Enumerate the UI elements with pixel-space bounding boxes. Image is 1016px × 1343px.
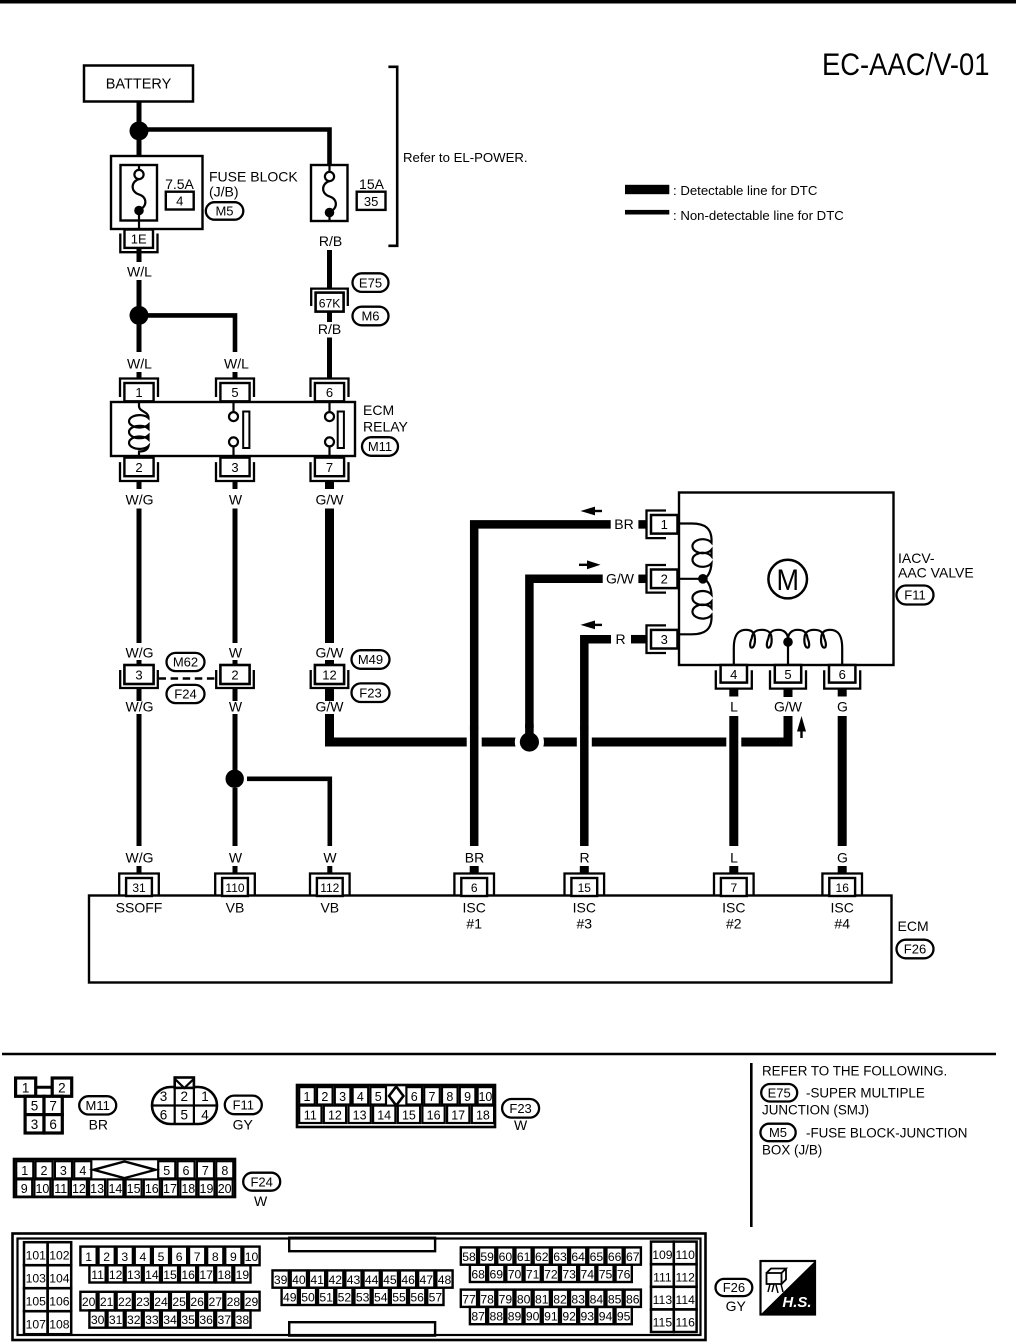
svg-text:7.5A: 7.5A	[165, 176, 194, 192]
svg-text:15: 15	[578, 881, 592, 895]
svg-text:13: 13	[90, 1182, 104, 1196]
svg-text:83: 83	[571, 1292, 585, 1306]
legend: non-detectable line sample	[625, 210, 669, 215]
svg-text:14: 14	[108, 1182, 122, 1196]
bracket refer EL-POWER	[388, 67, 397, 246]
wire W/L stub pin1	[137, 372, 142, 379]
svg-text:50: 50	[301, 1290, 315, 1304]
connector face F26 (ECM)	[13, 1234, 706, 1341]
svg-text:15: 15	[127, 1182, 141, 1196]
svg-text:3: 3	[231, 460, 238, 475]
connector pin 110 (ECM)	[215, 874, 255, 897]
connector pin 7 (ECM)	[714, 874, 754, 897]
svg-text:M5: M5	[215, 204, 233, 219]
connector pin 6 (ECM)	[454, 874, 494, 897]
connector 67K (SMJ)	[311, 289, 348, 312]
svg-text:19: 19	[200, 1182, 214, 1196]
svg-text:6: 6	[839, 667, 846, 682]
connector pin 2 (M62/F24)	[216, 665, 254, 688]
svg-text:-FUSE BLOCK-JUNCTION: -FUSE BLOCK-JUNCTION	[806, 1125, 967, 1140]
svg-text:W/L: W/L	[224, 356, 249, 372]
svg-text:W/L: W/L	[127, 264, 152, 280]
label ISC #1	[463, 899, 486, 931]
connector ref M49 oval	[352, 650, 390, 669]
wire W branch to pin112	[247, 779, 330, 846]
connector ref F26 oval (bottom)	[716, 1279, 753, 1296]
connector pin 6 (relay)	[311, 379, 349, 402]
svg-text:12: 12	[328, 1108, 342, 1122]
svg-text:H.S.: H.S.	[782, 1294, 811, 1311]
dashed connector link M62-F24	[159, 677, 216, 680]
label GY (F11 color)	[233, 1116, 254, 1132]
svg-text:RELAY: RELAY	[363, 419, 409, 435]
svg-text:73: 73	[562, 1267, 576, 1281]
text BOX (J/B)	[762, 1142, 822, 1157]
svg-text:1: 1	[21, 1164, 28, 1178]
svg-text:10: 10	[35, 1182, 49, 1196]
legend: detectable line sample	[625, 185, 669, 194]
connector ref M11 oval (bottom)	[79, 1096, 116, 1114]
label ECM	[898, 918, 929, 934]
wire stub ECM 112	[327, 866, 332, 874]
label R/B (1)	[319, 233, 342, 249]
svg-text:30: 30	[91, 1313, 105, 1327]
connector pin 12 (M49/F23)	[311, 665, 349, 688]
text REFER TO THE FOLLOWING	[762, 1064, 947, 1079]
valve pin2 internal wire	[679, 578, 700, 580]
svg-text:53: 53	[356, 1290, 370, 1304]
svg-text:18: 18	[476, 1108, 490, 1122]
svg-text:: Non-detectable line for DTC: : Non-detectable line for DTC	[673, 208, 844, 223]
svg-text:5: 5	[31, 1099, 39, 1114]
wire BR (valve pin1 to ECM pin6)	[474, 524, 646, 730]
label VB (1)	[226, 899, 245, 915]
svg-text:13: 13	[127, 1268, 141, 1282]
svg-text:5: 5	[784, 667, 791, 682]
svg-text:72: 72	[544, 1267, 558, 1281]
wire W/L stub pin5	[233, 372, 238, 379]
label SSOFF	[116, 899, 163, 915]
wire R vertical crossing bus	[577, 726, 592, 846]
connector pin 15 (ECM)	[565, 874, 605, 897]
title EC-AAC/V-01	[822, 46, 990, 82]
svg-text:18: 18	[218, 1268, 232, 1282]
valve bottom junction dot (pin5)	[783, 637, 793, 664]
separator line	[2, 1053, 996, 1056]
label R (1)	[615, 631, 625, 647]
connector ref F24 oval (bottom)	[243, 1173, 280, 1191]
wire 67K to relay pin6 (R/B)	[327, 312, 332, 379]
connector face F11	[152, 1078, 217, 1125]
svg-text:M49: M49	[358, 652, 383, 667]
svg-text:5: 5	[163, 1164, 170, 1178]
wire W/L junction branch to relay pin5	[146, 315, 235, 352]
wire G stub below pin6	[838, 689, 847, 697]
svg-text:4: 4	[140, 1250, 147, 1264]
connector ref F23 oval (bottom)	[502, 1099, 539, 1118]
svg-text:6: 6	[176, 1250, 183, 1264]
svg-text:F11: F11	[233, 1098, 254, 1113]
svg-text:W: W	[229, 492, 243, 508]
valve coil L3 (pin4-pin5)	[734, 630, 788, 664]
svg-text:34: 34	[163, 1313, 177, 1327]
svg-text:63: 63	[553, 1250, 567, 1264]
svg-text:31: 31	[132, 881, 146, 895]
svg-text:51: 51	[319, 1290, 333, 1304]
connector ref M5 oval (bottom)	[760, 1124, 795, 1142]
label W/L (3)	[224, 356, 249, 372]
svg-text:ECM: ECM	[363, 402, 394, 418]
connector pin 7 (relay)	[311, 458, 349, 481]
svg-text:-SUPER MULTIPLE: -SUPER MULTIPLE	[806, 1086, 925, 1101]
svg-text:W: W	[323, 850, 337, 866]
svg-text:W/L: W/L	[127, 356, 152, 372]
svg-text:24: 24	[154, 1295, 168, 1309]
svg-text:4: 4	[201, 1108, 209, 1123]
svg-text:114: 114	[675, 1293, 695, 1307]
svg-text:W: W	[229, 850, 243, 866]
svg-text:W/G: W/G	[126, 645, 154, 661]
svg-text:81: 81	[535, 1292, 549, 1306]
svg-text:110: 110	[675, 1248, 695, 1262]
svg-text:JUNCTION (SMJ): JUNCTION (SMJ)	[762, 1103, 869, 1118]
svg-text:2: 2	[661, 572, 668, 587]
label BR (2)	[465, 850, 484, 866]
wire stub ECM 7	[729, 866, 738, 874]
svg-text:16: 16	[181, 1268, 195, 1282]
svg-text:88: 88	[490, 1310, 504, 1324]
label G (1)	[837, 699, 848, 715]
svg-text:M5: M5	[769, 1125, 787, 1140]
wire W stub above conn2	[233, 660, 238, 665]
svg-text:112: 112	[320, 881, 339, 895]
svg-text:8: 8	[446, 1090, 453, 1104]
label W/G (3)	[126, 699, 154, 715]
svg-text:74: 74	[581, 1267, 595, 1281]
wire junction to fuse block	[137, 138, 142, 156]
label W (F24 color)	[254, 1193, 268, 1209]
svg-text:40: 40	[292, 1273, 306, 1287]
svg-text:75: 75	[599, 1267, 613, 1281]
svg-text:82: 82	[553, 1292, 567, 1306]
valve coil L2 (pin2-pin3)	[679, 579, 712, 634]
label 15A	[359, 176, 385, 192]
divider line	[750, 1063, 753, 1227]
label L (2)	[730, 850, 738, 866]
svg-text:109: 109	[652, 1248, 673, 1262]
svg-text:60: 60	[499, 1250, 513, 1264]
svg-text:7: 7	[202, 1164, 209, 1178]
wire stub ECM 15	[580, 866, 589, 874]
label G/W (5)	[774, 699, 803, 715]
svg-text:7: 7	[730, 881, 737, 895]
label W (4)	[229, 850, 243, 866]
svg-text:1E: 1E	[131, 232, 147, 247]
label L (1)	[730, 699, 738, 715]
H.S. hand symbol logo	[761, 1261, 816, 1315]
svg-text:68: 68	[471, 1267, 485, 1281]
connector ref M62 oval	[167, 653, 205, 671]
svg-text:ISC: ISC	[463, 899, 486, 915]
connector pin 31 (ECM)	[119, 874, 159, 897]
wire G/W bus (conn12 to valve pin5)	[330, 714, 789, 742]
relay contact S2	[325, 402, 344, 456]
svg-text:3: 3	[135, 668, 142, 683]
svg-text:103: 103	[26, 1272, 47, 1286]
svg-text:106: 106	[49, 1295, 70, 1309]
label W/L (2)	[127, 356, 152, 372]
svg-text:ISC: ISC	[573, 899, 596, 915]
svg-text:R/B: R/B	[319, 233, 342, 249]
svg-text:27: 27	[209, 1295, 223, 1309]
svg-text:BR: BR	[614, 516, 633, 532]
svg-text:7: 7	[49, 1099, 57, 1114]
wire W/G stub below conn3	[137, 688, 142, 701]
svg-text:47: 47	[420, 1273, 434, 1287]
svg-text:38: 38	[236, 1313, 250, 1327]
label W (2)	[229, 645, 243, 661]
svg-text:3: 3	[160, 1089, 168, 1104]
label G/W (2)	[316, 645, 345, 661]
wire G/W stub above conn12	[325, 660, 334, 665]
wire W/G long (relay to M62)	[137, 509, 142, 644]
svg-text:1: 1	[85, 1250, 92, 1264]
svg-text:10: 10	[478, 1090, 492, 1104]
connector pin 2 (relay)	[120, 458, 158, 481]
svg-text:3: 3	[121, 1250, 128, 1264]
label R (2)	[579, 850, 589, 866]
connector ref M6 oval	[353, 307, 389, 326]
svg-text:M6: M6	[361, 309, 379, 324]
wire fuse block 1E down (W/L)	[137, 248, 142, 262]
label VB (2)	[320, 899, 339, 915]
svg-text:2: 2	[135, 460, 142, 475]
svg-text:15A: 15A	[359, 176, 385, 192]
svg-text:5: 5	[181, 1108, 189, 1123]
svg-text:7: 7	[194, 1250, 201, 1264]
svg-text:12: 12	[72, 1182, 86, 1196]
label 7.5A	[165, 176, 194, 192]
svg-text:101: 101	[26, 1249, 47, 1263]
connector face M11	[16, 1078, 72, 1133]
svg-text:108: 108	[49, 1318, 70, 1332]
connector pin 16 (ECM)	[822, 874, 862, 897]
svg-text:1: 1	[201, 1089, 209, 1104]
svg-text:6: 6	[411, 1090, 418, 1104]
svg-text:102: 102	[49, 1249, 70, 1263]
svg-text:95: 95	[617, 1310, 631, 1324]
connector pin 4 (valve)	[716, 665, 752, 689]
wire G/W stub below pin5	[784, 689, 793, 697]
wire W/G stub below pin2	[137, 481, 142, 489]
svg-text:(J/B): (J/B)	[209, 184, 239, 200]
svg-text:67: 67	[626, 1250, 640, 1264]
svg-text:29: 29	[245, 1295, 259, 1309]
svg-text:13: 13	[353, 1108, 367, 1122]
svg-text:F23: F23	[359, 685, 381, 700]
svg-text:M: M	[776, 564, 799, 597]
svg-text:2: 2	[181, 1089, 189, 1104]
wire W/G long (M62 to ECM)	[137, 714, 142, 846]
svg-text:Refer to EL-POWER.: Refer to EL-POWER.	[403, 150, 528, 165]
svg-text:F26: F26	[904, 942, 926, 957]
svg-text:84: 84	[590, 1292, 604, 1306]
svg-text:33: 33	[145, 1313, 159, 1327]
wire W long (relay to M62)	[233, 509, 238, 644]
svg-text:26: 26	[190, 1295, 204, 1309]
svg-text:39: 39	[274, 1273, 288, 1287]
arrow left (BR wire)	[581, 507, 603, 516]
svg-text:SSOFF: SSOFF	[116, 899, 163, 915]
connector ref F11 oval	[897, 586, 934, 605]
label ECM RELAY	[363, 402, 409, 435]
svg-text:71: 71	[526, 1267, 540, 1281]
svg-text:18: 18	[181, 1182, 195, 1196]
svg-text:79: 79	[499, 1292, 513, 1306]
svg-text:2: 2	[41, 1164, 48, 1178]
label ISC #3	[573, 899, 596, 931]
svg-text:32: 32	[127, 1313, 141, 1327]
label G/W (1)	[316, 492, 345, 508]
svg-text:M11: M11	[368, 439, 392, 454]
svg-text:ECM: ECM	[898, 918, 929, 934]
svg-text:M62: M62	[173, 655, 198, 670]
svg-text:80: 80	[517, 1292, 531, 1306]
svg-text:37: 37	[218, 1313, 232, 1327]
svg-text:16: 16	[145, 1182, 159, 1196]
svg-text:F23: F23	[509, 1101, 531, 1116]
wire junction to 15A fuse	[146, 130, 330, 166]
svg-text:G/W: G/W	[316, 645, 345, 661]
svg-text:44: 44	[365, 1273, 379, 1287]
text SUPER MULTIPLE	[806, 1086, 925, 1101]
svg-text:F26: F26	[723, 1280, 745, 1295]
svg-text:3: 3	[339, 1090, 346, 1104]
svg-text:4: 4	[79, 1164, 86, 1178]
connector pin 1 (valve)	[647, 511, 678, 539]
svg-text:110: 110	[225, 881, 244, 895]
svg-text:92: 92	[562, 1310, 576, 1324]
connector pin 112 (ECM)	[310, 874, 350, 897]
svg-text:G/W: G/W	[606, 571, 635, 587]
label ISC #2	[722, 899, 745, 931]
wire stub ECM 6	[470, 866, 479, 874]
label FUSE BLOCK (J/B)	[209, 169, 298, 200]
svg-text:W: W	[514, 1117, 528, 1133]
svg-text:23: 23	[136, 1295, 150, 1309]
text refer EL-POWER	[403, 150, 528, 165]
svg-text:91: 91	[544, 1310, 558, 1324]
label BR (1)	[614, 516, 633, 532]
valve coil L1 (pin1-pin2)	[679, 524, 712, 579]
label W/L (1)	[127, 264, 152, 280]
svg-text:7: 7	[429, 1090, 436, 1104]
svg-text:9: 9	[464, 1090, 471, 1104]
svg-text:ISC: ISC	[722, 899, 745, 915]
svg-text:25: 25	[172, 1295, 186, 1309]
label W (1)	[229, 492, 243, 508]
connector pin 3 (relay)	[216, 458, 254, 481]
svg-text:9: 9	[21, 1182, 28, 1196]
svg-text:#4: #4	[834, 915, 850, 931]
svg-text:#3: #3	[577, 915, 593, 931]
svg-text:61: 61	[517, 1250, 531, 1264]
connector ref F23 oval (inline)	[352, 683, 390, 702]
svg-text:35: 35	[364, 194, 378, 209]
svg-text:87: 87	[471, 1310, 485, 1324]
svg-text:22: 22	[118, 1295, 132, 1309]
wire G/W stub below pin7	[325, 481, 334, 489]
fuse F4 7.5A in fuse block	[111, 156, 203, 229]
top border bar	[0, 0, 1016, 4]
wire W/G stub above conn3	[137, 660, 142, 665]
svg-text:1: 1	[135, 385, 142, 400]
svg-text:62: 62	[535, 1250, 549, 1264]
svg-text:115: 115	[653, 1316, 673, 1330]
wire BR vertical crossing bus	[467, 726, 482, 846]
svg-text:4: 4	[357, 1090, 364, 1104]
svg-text:4: 4	[176, 194, 183, 209]
svg-text:10: 10	[245, 1250, 259, 1264]
svg-text:107: 107	[26, 1318, 47, 1332]
wire G/W long (relay to M49)	[325, 509, 334, 644]
svg-text:6: 6	[49, 1117, 57, 1132]
label W (3)	[229, 699, 243, 715]
label G/W (4)	[606, 571, 635, 587]
label ISC #4	[831, 899, 854, 931]
svg-text:104: 104	[49, 1272, 70, 1286]
connector pin 1 (relay)	[120, 379, 158, 402]
relay box U1 (ECM RELAY)	[111, 402, 355, 456]
svg-text:14: 14	[145, 1268, 159, 1282]
svg-text:43: 43	[347, 1273, 361, 1287]
svg-text:20: 20	[82, 1295, 96, 1309]
svg-text:E75: E75	[768, 1085, 791, 1100]
wire G/W (valve pin2 to bus)	[529, 579, 646, 738]
svg-text:3: 3	[60, 1164, 67, 1178]
svg-text:R/B: R/B	[318, 321, 341, 337]
svg-text:BATTERY: BATTERY	[106, 77, 172, 93]
arrow left (R wire)	[581, 621, 603, 630]
junction node B (W/L splice)	[130, 306, 149, 325]
svg-text:46: 46	[401, 1273, 415, 1287]
svg-text:E75: E75	[359, 275, 382, 290]
svg-text:78: 78	[480, 1292, 494, 1306]
svg-text:86: 86	[626, 1292, 640, 1306]
junction node D (G/W bus splice)	[520, 732, 539, 751]
wire W stub below conn2	[233, 688, 238, 701]
svg-text:17: 17	[163, 1182, 177, 1196]
wire W/L down to relay pin1	[137, 323, 142, 352]
wire 15A to 67K (R/B)	[327, 250, 332, 288]
wire G/W riser to junction	[515, 724, 544, 757]
valve coil L4 (pin5-pin6)	[788, 630, 842, 664]
svg-text:45: 45	[383, 1273, 397, 1287]
svg-text:111: 111	[653, 1271, 672, 1285]
svg-text:REFER TO THE FOLLOWING.: REFER TO THE FOLLOWING.	[762, 1064, 947, 1079]
svg-text:BR: BR	[89, 1116, 108, 1132]
junction node C (W splice)	[226, 770, 244, 788]
svg-text:G/W: G/W	[774, 699, 803, 715]
svg-text:8: 8	[212, 1250, 219, 1264]
svg-text:9: 9	[230, 1250, 237, 1264]
svg-text:15: 15	[402, 1108, 416, 1122]
svg-text:76: 76	[617, 1267, 631, 1281]
svg-text:G: G	[837, 850, 848, 866]
svg-text:70: 70	[508, 1267, 522, 1281]
svg-text:ISC: ISC	[831, 899, 854, 915]
svg-text:AAC VALVE: AAC VALVE	[898, 565, 974, 581]
